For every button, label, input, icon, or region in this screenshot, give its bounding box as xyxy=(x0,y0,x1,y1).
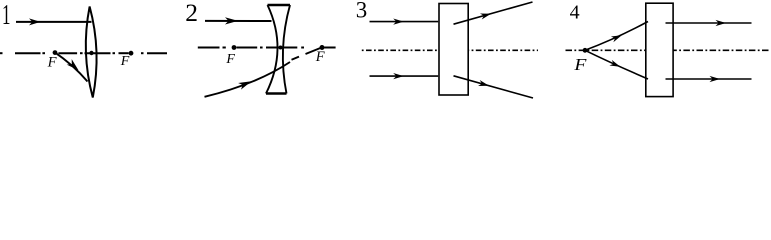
lower exit ray parallel (figure 4) xyxy=(666,78,752,80)
arrowhead on incident ray (figure 2) xyxy=(225,17,238,24)
focal point dot F left (figure 2) xyxy=(232,45,237,50)
dashed extension second dash (figure 2) xyxy=(306,48,322,54)
svg-text:F: F xyxy=(315,49,325,65)
optical axis (figure 2, dash-dot with dots) xyxy=(198,47,336,49)
downward ray from F (figure 4) xyxy=(585,50,648,79)
concave lens L2 right side xyxy=(283,5,290,94)
svg-text:2: 2 xyxy=(185,0,198,27)
dashed extension toward focal point (figure 2) xyxy=(292,57,300,60)
upper exit ray parallel (figure 4) xyxy=(666,22,752,24)
arrowhead upper exit (figure 4) xyxy=(716,20,727,26)
concave lens L2 top cap xyxy=(268,4,291,6)
focal point dot F left (figure 1) xyxy=(53,50,58,55)
concave lens L2 bottom cap xyxy=(266,92,287,94)
svg-text:F: F xyxy=(225,52,235,67)
incident ray 2 through focal point (figure 1) xyxy=(54,52,88,82)
incident ray 1 (parallel ray into concave lens) xyxy=(205,20,272,22)
focal point dot F right (figure 2) xyxy=(320,45,325,50)
svg-text:F: F xyxy=(120,54,130,69)
arrowhead upper incident (figure 3) xyxy=(393,19,404,25)
arrowhead downward ray (figure 4) xyxy=(609,60,621,70)
svg-text:4: 4 xyxy=(570,2,580,24)
optical axis (figure 4, fine dash-dot) xyxy=(566,49,771,51)
upper incident ray (figure 3) xyxy=(370,21,439,23)
incident ray 2 aimed at far focus (figure 2, solid part) xyxy=(205,62,291,97)
arrowhead on incident ray 2 (figure 2) xyxy=(238,78,253,90)
arrowhead lower incident (figure 3) xyxy=(393,73,404,79)
focal point dot F (figure 4) xyxy=(583,48,588,53)
arrowhead upward ray (figure 4) xyxy=(611,32,623,42)
arrowhead lower exit (figure 3) xyxy=(478,80,490,89)
black box (figure 3) xyxy=(439,4,468,96)
black box (figure 4) xyxy=(646,3,673,96)
arrowhead upper exit (figure 3) xyxy=(480,11,492,20)
upper exit ray diverging (figure 3) xyxy=(454,2,533,24)
focal point dot F right (figure 1) xyxy=(129,51,134,56)
optical axis (figure 1, dash-dot with dots) xyxy=(0,52,167,54)
arrowhead lower exit (figure 4) xyxy=(710,76,721,82)
arrowhead on incident ray 1 xyxy=(29,18,41,25)
lower incident ray (figure 3) xyxy=(370,75,439,77)
concave lens L2 left side xyxy=(266,5,278,94)
optical centre dot of lens L2 xyxy=(279,46,283,50)
svg-text:1: 1 xyxy=(2,0,11,31)
convex lens L1 xyxy=(84,6,98,97)
lower exit ray diverging (figure 3) xyxy=(454,76,534,98)
svg-text:F: F xyxy=(47,55,58,71)
svg-text:F: F xyxy=(573,55,587,74)
svg-text:3: 3 xyxy=(356,0,368,22)
optical centre dot of lens L1 xyxy=(89,51,93,55)
arrowhead on incident ray 2 (figure 1) xyxy=(67,59,81,73)
upward ray from F (figure 4) xyxy=(585,22,648,51)
incident ray 1 (parallel ray into convex lens) xyxy=(16,21,92,23)
optical axis (figure 3, fine dash-dot) xyxy=(362,49,538,51)
